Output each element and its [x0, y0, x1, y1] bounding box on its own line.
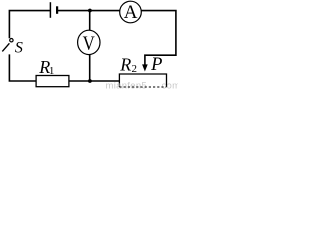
svg-text:1: 1 [49, 65, 55, 77]
svg-text:P: P [150, 55, 162, 75]
voltmeter branch wire (top) [89, 11, 91, 31]
svg-text:com: com [162, 80, 179, 89]
node junction dot (bottom, voltmeter tap) [88, 79, 92, 83]
voltmeter branch wire (bottom) [89, 54, 91, 81]
slider arrowhead pointing down onto R2 [142, 64, 148, 71]
svg-text:A: A [124, 2, 138, 23]
rheostat R2 box (bottom edge broken by watermark) [119, 74, 166, 87]
wire from battery to ammeter through node [58, 10, 120, 12]
watermark text [106, 80, 181, 91]
voltmeter U: circle [78, 30, 100, 54]
bottom-left wire: from switch down and right to R1 [9, 54, 36, 81]
battery cell: long plate (left) [49, 2, 51, 18]
svg-text:2: 2 [132, 63, 138, 75]
svg-text:S: S [15, 40, 23, 57]
wire from R1 to R2 through bottom node [69, 80, 120, 82]
svg-text:R: R [119, 55, 131, 75]
ammeter U: circle [120, 1, 142, 23]
switch S: contact circle [10, 39, 13, 42]
wire from ammeter right, down right side, left to slider arm [141, 11, 176, 66]
resistor R1 box [36, 76, 69, 87]
wire top-left loop: top wire to battery, left vertical down to switch [9, 11, 50, 39]
svg-text:V: V [83, 32, 96, 54]
switch S: blade (open) [2, 43, 9, 51]
battery cell: short plate (right) [56, 6, 58, 14]
node junction dot (top, voltmeter tap) [88, 9, 92, 13]
